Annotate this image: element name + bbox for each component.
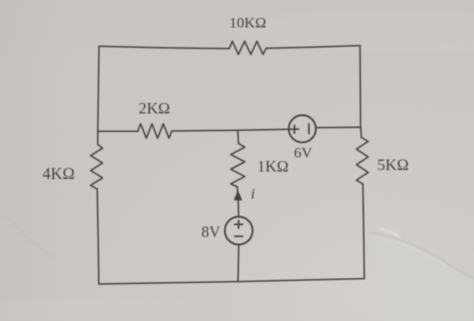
voltage source 6V	[289, 115, 316, 142]
resistor 5KΩ	[356, 138, 368, 185]
label - of 8V source	[235, 235, 243, 237]
label - of 6V source	[308, 124, 310, 134]
wire top	[99, 46, 229, 48]
resistor 2KΩ	[138, 124, 172, 138]
resistor 10KΩ	[229, 41, 266, 54]
wire middle horizontal right	[316, 126, 361, 128]
wire middle vertical lower	[237, 245, 240, 282]
resistor 1KΩ	[231, 144, 245, 187]
voltage source 8V	[225, 217, 253, 245]
label + of 8V source	[235, 221, 243, 229]
wire bottom	[99, 279, 365, 284]
wire middle vertical mid	[237, 187, 238, 217]
wire top right	[266, 46, 360, 49]
current arrow i	[234, 191, 241, 200]
wire left lower	[97, 189, 99, 284]
resistor 4KΩ	[91, 145, 103, 190]
wire middle horizontal center	[172, 129, 289, 131]
wire right	[360, 46, 361, 138]
wire middle vertical upper	[237, 130, 240, 143]
wire left	[98, 46, 99, 144]
label + of 6V source	[290, 125, 298, 133]
wire right lower	[363, 184, 364, 279]
wire middle horizontal left	[98, 130, 138, 132]
